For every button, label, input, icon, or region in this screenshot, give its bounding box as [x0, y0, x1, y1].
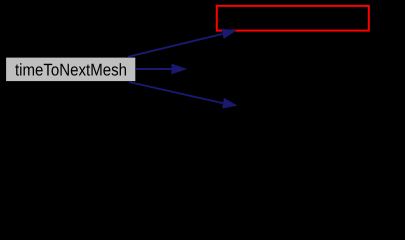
edge timeToNextMesh to bottom node: [129, 82, 238, 109]
edge timeToNextMesh to middle node: [135, 64, 187, 75]
node truncated-red: [217, 6, 369, 31]
edge timeToNextMesh to red node: [128, 29, 237, 57]
node timeToNextMesh: [6, 58, 135, 82]
svg-text:timeToNextMesh: timeToNextMesh: [15, 60, 127, 79]
